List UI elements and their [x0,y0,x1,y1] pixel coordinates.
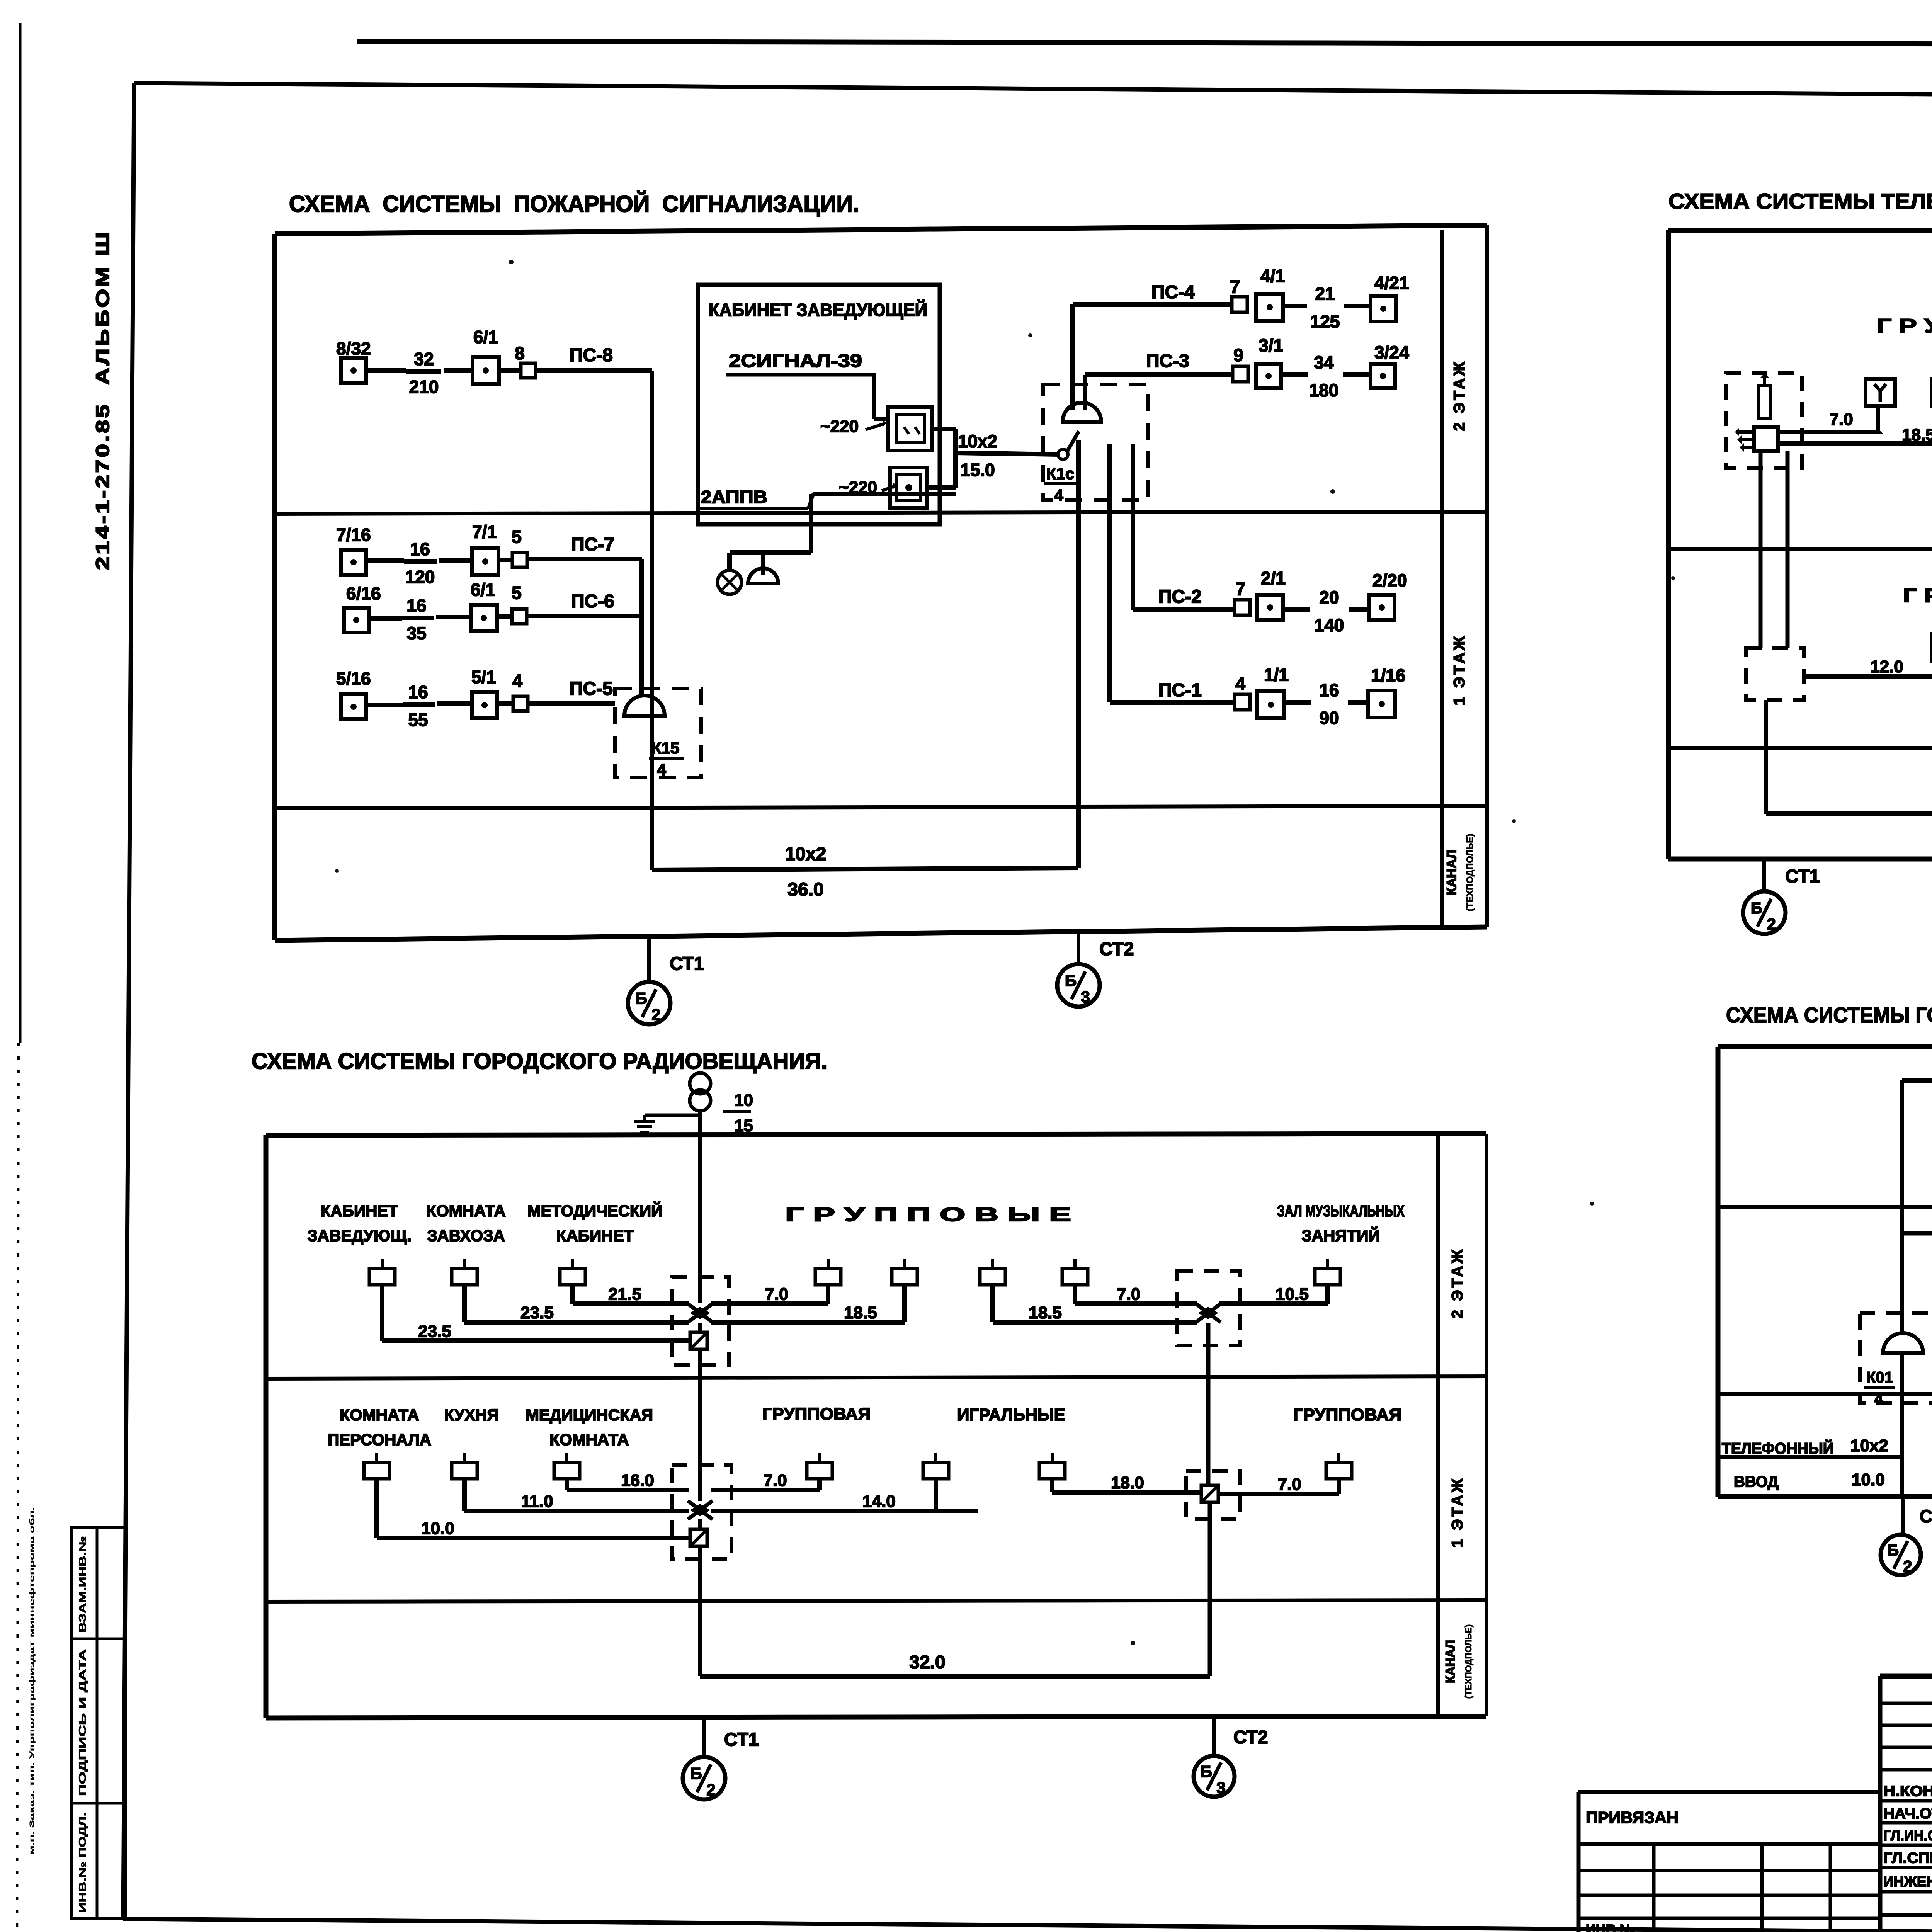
svg-text:СХЕМА СИСТЕМЫ ГОРОДСКОГО РАДИО: СХЕМА СИСТЕМЫ ГОРОДСКОГО РАДИОВЕЩАНИЯ. [252,1049,827,1074]
svg-text:18.5: 18.5 [844,1303,877,1322]
svg-text:16: 16 [1319,680,1339,700]
svg-text:8: 8 [515,343,525,363]
svg-text:1 ЭТАЖ: 1 ЭТАЖ [1449,1476,1466,1548]
svg-text:16.0: 16.0 [621,1471,654,1490]
svg-text:Б: Б [1065,971,1077,990]
svg-text:16: 16 [406,595,426,616]
svg-text:1/1: 1/1 [1264,665,1289,685]
svg-text:м.п. Заказ. тип. Упрполиграфиз: м.п. Заказ. тип. Упрполиграфиздат миннеф… [28,1507,36,1855]
svg-text:4: 4 [1874,1391,1883,1408]
svg-text:2СИГНАЛ-39: 2СИГНАЛ-39 [729,351,862,371]
svg-text:НАЧ.ОТД.: НАЧ.ОТД. [1883,1806,1932,1822]
svg-text:ГРУППОВАЯ: ГРУППОВАЯ [1293,1405,1401,1424]
svg-text:МЕТОДИЧЕСКИЙ: МЕТОДИЧЕСКИЙ [527,1201,663,1220]
svg-text:Б: Б [636,989,647,1007]
svg-text:7.0: 7.0 [763,1471,787,1490]
svg-text:Б: Б [1201,1762,1212,1781]
svg-text:ИНЖЕНЕР: ИНЖЕНЕР [1883,1874,1932,1890]
svg-text:ЗАЛ МУЗЫКАЛЬНЫХ: ЗАЛ МУЗЫКАЛЬНЫХ [1277,1202,1405,1220]
svg-text:СТ1: СТ1 [1785,866,1820,887]
svg-text:Н.КОНТР: Н.КОНТР [1883,1783,1932,1799]
svg-text:4: 4 [1054,486,1063,504]
svg-text:36.0: 36.0 [787,879,823,900]
svg-text:ТЕЛЕФОННЫЙ: ТЕЛЕФОННЫЙ [1722,1439,1834,1457]
svg-text:10: 10 [734,1091,753,1110]
svg-text:СХЕМА СИСТЕМЫ ПОЖАРНОЙ СИГН: СХЕМА СИСТЕМЫ ПОЖАРНОЙ СИГНАЛИЗАЦИИ. [289,191,859,217]
svg-text:КАБИНЕТ ЗАВЕДУЮЩЕЙ: КАБИНЕТ ЗАВЕДУЮЩЕЙ [709,300,927,320]
svg-text:ГЛ.ИН.ОТД: ГЛ.ИН.ОТД [1883,1828,1932,1844]
svg-text:4: 4 [1235,673,1245,694]
svg-text:ГЛ.СПЕЦ.: ГЛ.СПЕЦ. [1883,1850,1932,1866]
svg-text:23.5: 23.5 [418,1322,451,1341]
svg-text:6/16: 6/16 [346,583,381,604]
svg-text:90: 90 [1319,708,1339,728]
svg-text:32.0: 32.0 [909,1652,945,1673]
svg-text:2/1: 2/1 [1261,568,1286,588]
svg-text:(ТЕХПОДПОЛЬЕ): (ТЕХПОДПОЛЬЕ) [1465,834,1475,912]
svg-text:ПС-1: ПС-1 [1158,680,1202,701]
svg-text:35: 35 [406,623,426,643]
svg-text:Г Р У П П О В Ы Е: Г Р У П П О В Ы Е [785,1204,1071,1225]
svg-text:ВЗАМ.ИНВ.№: ВЗАМ.ИНВ.№ [77,1536,88,1633]
svg-text:214-1-270.85 АЛЬБОМ Ш: 214-1-270.85 АЛЬБОМ Ш [93,230,113,570]
svg-text:21: 21 [1315,284,1335,304]
svg-text:КАНАЛ: КАНАЛ [1444,850,1459,896]
svg-text:7.0: 7.0 [1117,1285,1140,1304]
svg-text:3/1: 3/1 [1259,335,1283,355]
svg-text:120: 120 [405,567,435,587]
svg-text:4: 4 [657,760,666,779]
svg-text:КОМНАТА: КОМНАТА [549,1430,629,1449]
svg-text:ПРИВЯЗАН: ПРИВЯЗАН [1586,1808,1679,1827]
svg-text:2: 2 [706,1781,715,1799]
svg-text:4/1: 4/1 [1260,266,1285,286]
svg-text:5: 5 [512,527,522,547]
svg-text:1 ЭТАЖ: 1 ЭТАЖ [1451,634,1468,706]
svg-text:СХЕМА СИСТЕМЫ ТЕЛЕВИДЕНИЯ.: СХЕМА СИСТЕМЫ ТЕЛЕВИДЕНИЯ. [1668,189,1932,213]
svg-text:210: 210 [409,377,439,397]
svg-text:Б: Б [690,1764,702,1782]
svg-text:16: 16 [408,682,428,702]
svg-text:3: 3 [1081,988,1090,1006]
svg-text:СТ1: СТ1 [724,1730,759,1750]
svg-text:К15: К15 [651,739,679,757]
svg-text:2 ЭТАЖ: 2 ЭТАЖ [1449,1247,1466,1319]
svg-text:20: 20 [1319,587,1339,607]
svg-text:ПС-2: ПС-2 [1158,587,1202,607]
svg-text:КАНАЛ: КАНАЛ [1443,1640,1457,1683]
svg-text:ЗАНЯТИЙ: ЗАНЯТИЙ [1301,1226,1380,1245]
svg-text:К1с: К1с [1046,464,1074,483]
svg-text:7.0: 7.0 [1277,1475,1301,1494]
svg-text:ПЕРСОНАЛА: ПЕРСОНАЛА [328,1430,431,1449]
svg-text:10x2: 10x2 [1850,1436,1888,1455]
svg-text:18.5: 18.5 [1902,425,1932,444]
svg-text:1/16: 1/16 [1371,665,1406,685]
svg-text:9: 9 [1233,345,1243,365]
svg-text:18.0: 18.0 [1111,1473,1144,1492]
svg-text:5/1: 5/1 [471,667,496,687]
svg-text:МЕДИЦИНСКАЯ: МЕДИЦИНСКАЯ [526,1406,653,1424]
svg-text:К01: К01 [1866,1369,1893,1386]
svg-text:ИНВ.№: ИНВ.№ [1586,1922,1635,1932]
svg-text:10x2: 10x2 [958,431,997,451]
svg-text:180: 180 [1309,380,1339,400]
svg-text:~220: ~220 [820,417,859,436]
svg-text:3/24: 3/24 [1374,342,1409,362]
svg-text:Г Р У П П О В Ы Е: Г Р У П П О В Ы Е [1903,585,1932,606]
svg-text:ЗАВХОЗА: ЗАВХОЗА [427,1226,505,1245]
svg-text:ЗАВЕДУЮЩ.: ЗАВЕДУЮЩ. [307,1226,411,1245]
svg-text:23.5: 23.5 [520,1303,554,1322]
svg-text:4: 4 [512,671,522,691]
svg-text:СТ2: СТ2 [1099,939,1134,959]
svg-text:7.0: 7.0 [765,1285,788,1304]
svg-text:10.0: 10.0 [1852,1470,1885,1489]
svg-text:КОМНАТА: КОМНАТА [426,1202,505,1220]
svg-text:СТ1: СТ1 [1920,1506,1932,1526]
svg-text:Б: Б [1751,899,1762,917]
svg-text:140: 140 [1315,615,1344,635]
svg-text:ПОДПИСЬ И ДАТА: ПОДПИСЬ И ДАТА [77,1649,88,1796]
svg-text:6/1: 6/1 [471,580,495,600]
svg-text:5/16: 5/16 [336,668,371,689]
svg-text:ВВОД: ВВОД [1734,1473,1779,1490]
svg-text:КУХНЯ: КУХНЯ [444,1406,498,1424]
svg-text:СХЕМА СИСТЕМЫ ГОРОДСКОЙ ТЕЛЕФО: СХЕМА СИСТЕМЫ ГОРОДСКОЙ ТЕЛЕФОННОЙ СЕТИ. [1726,1003,1932,1027]
svg-text:Г Р У П П О В Ы Е: Г Р У П П О В Ы Е [1876,315,1932,337]
svg-text:10.0: 10.0 [421,1519,454,1538]
svg-text:10x2: 10x2 [785,844,827,864]
svg-text:21.5: 21.5 [608,1285,641,1304]
svg-text:ПС-3: ПС-3 [1146,351,1189,371]
svg-text:ПС-7: ПС-7 [571,534,614,555]
svg-text:ГРУППОВАЯ: ГРУППОВАЯ [762,1405,871,1423]
svg-text:7.0: 7.0 [1829,410,1853,429]
svg-text:7/1: 7/1 [472,522,497,542]
svg-text:ПС-6: ПС-6 [571,591,614,612]
svg-text:55: 55 [408,710,428,730]
svg-text:2: 2 [651,1005,660,1024]
svg-text:10.5: 10.5 [1276,1285,1309,1304]
svg-text:ПС-4: ПС-4 [1151,282,1195,303]
svg-text:16: 16 [410,539,430,559]
svg-text:5: 5 [512,583,522,603]
svg-text:15.0: 15.0 [960,460,995,480]
svg-text:14.0: 14.0 [862,1492,896,1511]
svg-text:2: 2 [1767,915,1776,933]
svg-text:12.0: 12.0 [1870,657,1903,676]
svg-text:(ТЕХПОДПОЛЬЕ): (ТЕХПОДПОЛЬЕ) [1463,1624,1473,1699]
svg-text:КАБИНЕТ: КАБИНЕТ [321,1202,398,1220]
svg-text:2: 2 [1903,1557,1912,1575]
svg-text:18.5: 18.5 [1029,1303,1062,1322]
svg-text:7: 7 [1230,277,1240,297]
svg-text:ИНВ.№ ПОДЛ.: ИНВ.№ ПОДЛ. [77,1812,88,1913]
svg-text:ИГРАЛЬНЫЕ: ИГРАЛЬНЫЕ [957,1405,1065,1424]
svg-text:ПС-8: ПС-8 [570,345,613,366]
svg-text:ПС-5: ПС-5 [570,679,613,699]
svg-text:2 ЭТАЖ: 2 ЭТАЖ [1451,360,1468,431]
svg-text:СТ2: СТ2 [1233,1727,1268,1748]
svg-text:2АППВ: 2АППВ [701,487,767,507]
svg-text:2/20: 2/20 [1372,570,1407,590]
svg-text:8/32: 8/32 [336,338,371,359]
svg-text:7/16: 7/16 [336,525,371,545]
svg-text:КАБИНЕТ: КАБИНЕТ [556,1226,634,1245]
svg-text:34: 34 [1314,352,1334,372]
svg-text:6/1: 6/1 [473,327,498,347]
svg-text:КОМНАТА: КОМНАТА [340,1406,419,1424]
svg-text:32: 32 [414,349,434,369]
svg-text:4/21: 4/21 [1374,273,1409,293]
svg-text:125: 125 [1310,311,1340,332]
svg-text:11.0: 11.0 [521,1492,553,1511]
svg-text:7: 7 [1235,579,1245,599]
svg-text:СТ1: СТ1 [670,954,704,974]
svg-text:Б: Б [1887,1541,1899,1559]
svg-text:3: 3 [1216,1779,1225,1797]
